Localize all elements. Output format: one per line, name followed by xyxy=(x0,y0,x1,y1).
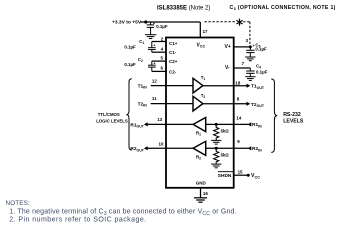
arrow T1OUT xyxy=(247,84,251,88)
svg-text:R2IN: R2IN xyxy=(252,146,262,152)
svg-text:R2: R2 xyxy=(196,154,201,160)
svg-text:7: 7 xyxy=(242,61,245,66)
svg-text:V-: V- xyxy=(225,65,230,71)
svg-text:17: 17 xyxy=(203,29,208,34)
svg-text:8: 8 xyxy=(237,96,240,101)
svg-text:0.1µF: 0.1µF xyxy=(256,70,268,75)
ground (R2 5k) xyxy=(211,164,221,168)
resistor R1 5k xyxy=(214,124,219,140)
svg-text:13: 13 xyxy=(157,117,162,122)
arrow T2OUT xyxy=(247,102,251,106)
wire pin 6 xyxy=(152,70,166,72)
svg-text:C3 (OPTIONAL CONNECTION, NOTE: C3 (OPTIONAL CONNECTION, NOTE 1) xyxy=(230,5,336,11)
node RS-232 bracket xyxy=(271,79,277,152)
svg-text:3: 3 xyxy=(246,38,249,43)
capacitor C4 xyxy=(246,68,254,77)
svg-text:ISL83385E (Note 2): ISL83385E (Note 2) xyxy=(157,5,210,11)
ground (R1 5k) xyxy=(211,140,221,144)
arrow R1OUT xyxy=(144,122,148,126)
svg-text:+: + xyxy=(153,44,156,48)
capacitor C2 xyxy=(148,61,156,71)
svg-text:T1OUT: T1OUT xyxy=(251,84,265,90)
svg-text:C1-: C1- xyxy=(169,50,177,55)
node SHDN-VCC xyxy=(247,174,250,177)
wire T2IN xyxy=(151,103,193,105)
svg-text:5kΩ: 5kΩ xyxy=(221,129,230,134)
svg-text:18: 18 xyxy=(235,80,240,85)
svg-text:C1+: C1+ xyxy=(169,41,178,46)
svg-text:15: 15 xyxy=(238,170,243,175)
wire T1OUT xyxy=(203,85,247,87)
svg-text:C4: C4 xyxy=(256,63,261,69)
wire pin 5 xyxy=(152,60,166,62)
op-amp R1 receiver triangle xyxy=(193,118,206,132)
svg-text:NOTES:: NOTES: xyxy=(6,200,31,207)
node TTL/CMOS bracket xyxy=(126,79,131,150)
arrow R2IN xyxy=(248,146,252,150)
svg-text:R2OUT: R2OUT xyxy=(130,146,144,152)
svg-text:+3.3V to +5V: +3.3V to +5V xyxy=(112,20,142,26)
resistor R2 5k xyxy=(214,148,219,164)
svg-text:T1IN: T1IN xyxy=(138,83,148,89)
svg-text:6: 6 xyxy=(161,65,164,70)
wire pin 4 xyxy=(152,51,166,53)
svg-text:0.1µF: 0.1µF xyxy=(124,62,136,67)
svg-text:2: 2 xyxy=(161,36,164,41)
svg-text:SHDN: SHDN xyxy=(218,173,232,179)
node V+ junction xyxy=(249,45,252,48)
op-amp T1 driver triangle xyxy=(193,78,203,93)
svg-text:11: 11 xyxy=(152,96,157,101)
wire R1IN xyxy=(206,123,249,125)
ground (C5) xyxy=(245,57,255,61)
capacitor C3 optional (asterisk mark) xyxy=(236,19,242,26)
svg-text:0.1µF: 0.1µF xyxy=(124,44,136,49)
wire pin 17 stub xyxy=(199,22,201,38)
wire pin 3 V+ stub xyxy=(234,46,251,48)
svg-text:LEVELS: LEVELS xyxy=(283,118,304,124)
arrow R1IN xyxy=(248,122,252,126)
svg-text:RS-232: RS-232 xyxy=(283,112,301,118)
svg-text:C2: C2 xyxy=(138,57,143,63)
svg-text:T2OUT: T2OUT xyxy=(251,102,265,108)
svg-text:9: 9 xyxy=(237,139,240,144)
svg-text:0.1µF: 0.1µF xyxy=(255,47,267,52)
svg-text:VCC: VCC xyxy=(197,42,206,48)
wire pin 7 V- stub xyxy=(234,67,251,69)
svg-text:T1: T1 xyxy=(201,75,206,81)
svg-text:4: 4 xyxy=(161,47,164,52)
svg-text:TTL/CMOS: TTL/CMOS xyxy=(98,112,120,117)
ground (C4) xyxy=(245,77,255,81)
wire pin 15 SHDN to VCC xyxy=(234,174,249,176)
arrow R2OUT xyxy=(144,146,148,150)
svg-text:C2-: C2- xyxy=(169,69,177,74)
ground (VCC bypass) xyxy=(145,35,156,39)
svg-text:T2: T2 xyxy=(201,93,206,99)
node R2 input xyxy=(215,147,218,150)
capacitor C1 xyxy=(148,42,156,53)
svg-text:GND: GND xyxy=(196,180,207,185)
wire T1IN xyxy=(151,85,193,87)
capacitor 0.1uF VCC bypass xyxy=(147,22,154,35)
VCC supply rail wire xyxy=(141,21,201,23)
wire R1OUT xyxy=(147,123,193,125)
wire pin 2 xyxy=(152,41,166,43)
svg-text:C2+: C2+ xyxy=(169,59,178,64)
svg-text:14: 14 xyxy=(236,116,241,121)
svg-text:5: 5 xyxy=(161,56,164,61)
wire T2OUT xyxy=(203,103,247,105)
svg-text:R1IN: R1IN xyxy=(252,122,262,128)
svg-text:VCC: VCC xyxy=(251,173,260,179)
IC body U1 xyxy=(166,38,234,188)
svg-text:5kΩ: 5kΩ xyxy=(221,153,230,158)
op-amp R2 receiver triangle xyxy=(193,141,206,155)
ground (GND pin) xyxy=(194,198,207,202)
svg-text:V+: V+ xyxy=(225,44,231,50)
wire C3 optional dashed path xyxy=(205,22,250,46)
wire pin 16 GND stub xyxy=(200,188,202,198)
svg-text:T2IN: T2IN xyxy=(138,101,148,107)
svg-text:R1OUT: R1OUT xyxy=(130,122,144,128)
svg-text:2. Pin numbers refer to SOIC: 2. Pin numbers refer to SOIC package. xyxy=(9,217,146,224)
svg-text:C1: C1 xyxy=(139,39,144,45)
svg-text:0.1µF: 0.1µF xyxy=(156,24,168,29)
op-amp T2 driver triangle xyxy=(193,96,203,111)
svg-text:R1: R1 xyxy=(196,130,201,136)
node R1 input xyxy=(215,123,218,126)
svg-text:LOGIC LEVELS: LOGIC LEVELS xyxy=(96,118,128,123)
wire R2OUT xyxy=(147,147,193,149)
svg-text:10: 10 xyxy=(159,141,164,146)
svg-text:+: + xyxy=(153,61,156,65)
svg-text:16: 16 xyxy=(203,191,208,196)
capacitor C5 xyxy=(246,47,254,57)
svg-text:12: 12 xyxy=(152,79,157,84)
supply junction node xyxy=(144,20,147,23)
wire R2IN xyxy=(206,147,249,149)
